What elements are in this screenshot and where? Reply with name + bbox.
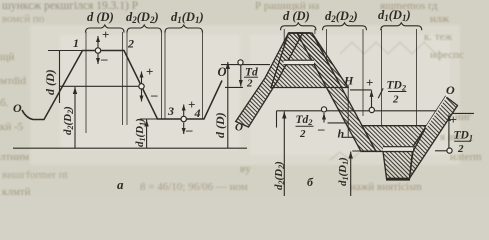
svg-text:б.: б. [0, 97, 9, 109]
svg-text:–: – [100, 51, 108, 66]
svg-text:нлterm: нлterm [450, 151, 482, 163]
svg-text:d1(D1): d1(D1) [171, 10, 204, 25]
svg-text:h: h [338, 127, 345, 141]
svg-text:к. теж: к. теж [424, 31, 453, 43]
svg-text:d1(D1): d1(D1) [378, 8, 411, 23]
svg-text:d (D): d (D) [43, 69, 57, 95]
svg-text:–: – [185, 122, 193, 137]
svg-text:d2(D2): d2(D2) [126, 10, 159, 25]
svg-text:d (D): d (D) [87, 10, 114, 24]
svg-text:2: 2 [299, 128, 306, 140]
svg-text:d1(D1): d1(D1) [134, 118, 147, 147]
svg-text:+: + [188, 97, 195, 112]
svg-text:нфеспс: нфеспс [430, 49, 464, 61]
svg-text:a: a [117, 177, 124, 192]
svg-text:1: 1 [73, 36, 79, 50]
svg-text:клмтй: клмтй [2, 186, 31, 196]
svg-text:2: 2 [457, 143, 464, 155]
svg-text:O: O [446, 83, 455, 97]
svg-text:O: O [218, 65, 227, 79]
svg-text:H: H [343, 74, 354, 88]
svg-text:2: 2 [127, 37, 134, 51]
svg-text:d2(D2): d2(D2) [273, 161, 286, 190]
svg-text:ииг: ииг [455, 111, 472, 123]
svg-text:–: – [317, 121, 325, 136]
svg-text:8 = 46/10; 96/06 — ном: 8 = 46/10; 96/06 — ном [140, 181, 248, 193]
svg-text:вишгformer пt: вишгformer пt [2, 169, 68, 181]
svg-text:3: 3 [167, 104, 174, 118]
svg-text:O: O [13, 101, 22, 115]
svg-text:+: + [450, 112, 457, 127]
svg-text:+: + [366, 75, 373, 90]
svg-text:d2(D2): d2(D2) [62, 106, 75, 135]
svg-text:d1(D1): d1(D1) [337, 157, 350, 186]
svg-text:нажй внятicism: нажй внятicism [350, 181, 422, 193]
svg-text:2: 2 [392, 94, 399, 106]
svg-text:нлж: нлж [430, 13, 449, 25]
svg-text:вомcй по: вомcй по [2, 13, 45, 25]
svg-text:+: + [102, 27, 109, 42]
svg-text:2: 2 [246, 78, 253, 90]
svg-text:б: б [307, 175, 314, 189]
svg-text:d (D): d (D) [213, 112, 227, 138]
svg-text:d (D): d (D) [283, 9, 310, 23]
svg-text:щй: щй [0, 51, 14, 63]
svg-text:–: – [150, 87, 158, 102]
svg-text:шунксж рекшгiлся 19.3.1) Р: шунксж рекшгiлся 19.3.1) Р [2, 0, 138, 12]
svg-text:лтним: лтним [0, 151, 29, 163]
svg-text:+: + [146, 64, 153, 79]
svg-text:мтdid: мтdid [0, 75, 26, 87]
svg-text:O: O [235, 122, 243, 134]
svg-text:вy: вy [240, 163, 251, 175]
svg-text:d2(D2): d2(D2) [325, 9, 358, 24]
svg-text:кй -5: кй -5 [0, 121, 24, 133]
